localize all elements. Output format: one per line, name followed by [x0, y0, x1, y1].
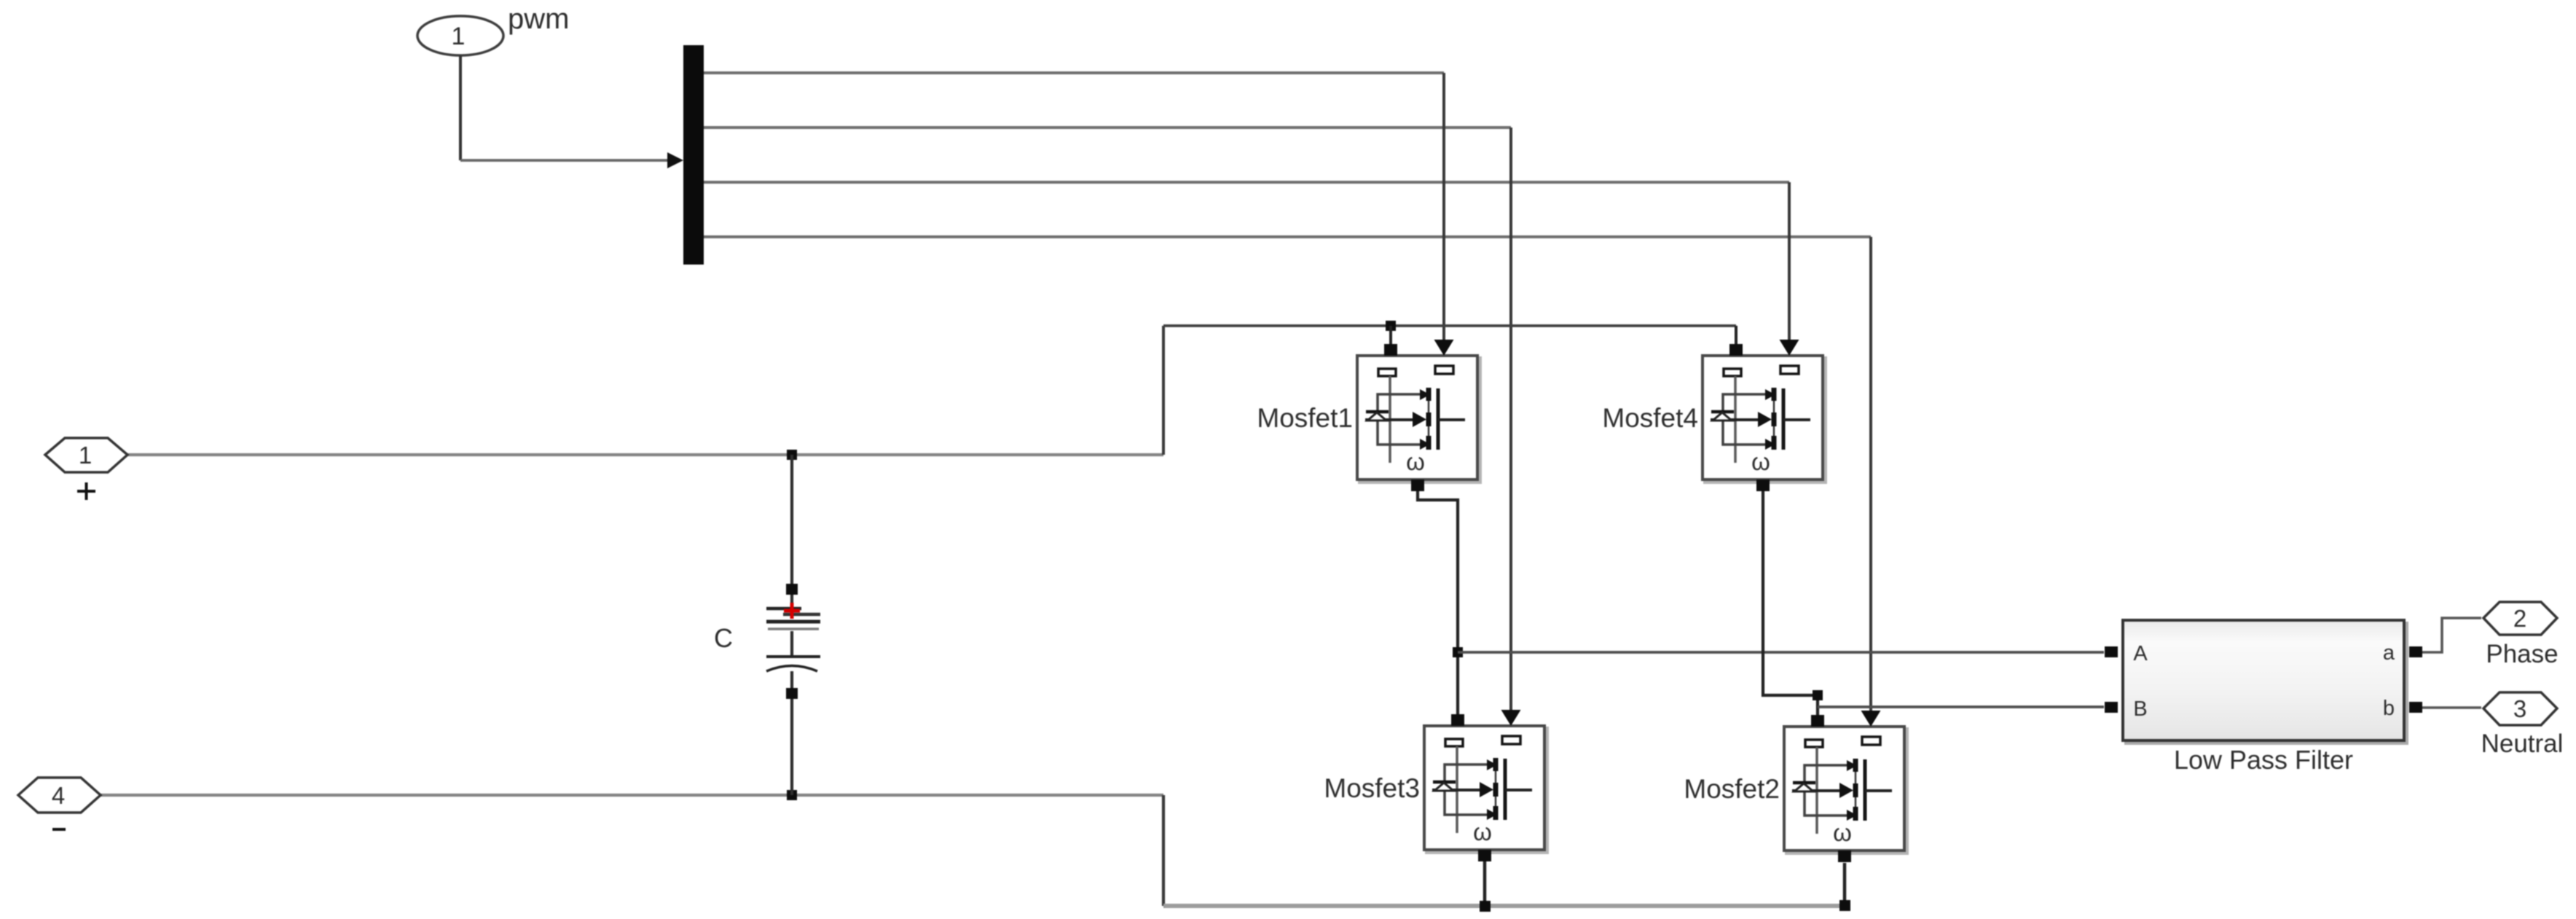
svg-text:b: b	[2383, 697, 2395, 720]
svg-text:Low Pass Filter: Low Pass Filter	[2174, 745, 2353, 775]
svg-text:pwm: pwm	[508, 3, 569, 35]
svg-text:4: 4	[52, 782, 65, 809]
svg-text:1: 1	[452, 23, 466, 50]
svg-text:B: B	[2133, 697, 2147, 721]
svg-text:1: 1	[79, 442, 92, 469]
svg-text:C: C	[714, 623, 733, 653]
svg-text:Phase: Phase	[2486, 640, 2558, 668]
svg-text:a: a	[2383, 641, 2395, 665]
svg-text:3: 3	[2513, 695, 2526, 722]
svg-text:Mosfet4: Mosfet4	[1602, 403, 1698, 433]
svg-text:Mosfet2: Mosfet2	[1684, 774, 1780, 804]
svg-text:Mosfet3: Mosfet3	[1324, 773, 1420, 803]
svg-text:2: 2	[2513, 605, 2526, 632]
svg-text:Mosfet1: Mosfet1	[1257, 403, 1353, 433]
svg-text:A: A	[2133, 642, 2148, 665]
svg-text:Neutral: Neutral	[2481, 730, 2564, 758]
